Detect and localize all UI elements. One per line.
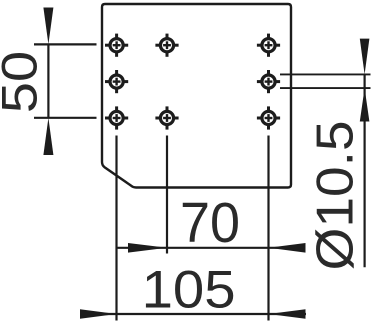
hole B3 (row2 col3): [257, 70, 280, 93]
svg-text:50: 50: [0, 51, 48, 113]
dia 10.5: tangent line upper: [280, 73, 371, 75]
hole A1 (row1 col1): [105, 34, 128, 57]
dia 10.5: tangent line lower: [280, 87, 371, 89]
plate outline: [102, 4, 291, 188]
dim 105: arrow right: [269, 309, 306, 319]
dim 50: arrow top: [43, 8, 53, 45]
hole C2 (row3 col2): [155, 106, 178, 129]
dia 10.5: dimension line: [364, 74, 366, 267]
dim 70: arrow left: [128, 243, 167, 253]
hole C1 (row3 col1): [105, 106, 128, 129]
svg-text:Ø10.5: Ø10.5: [307, 121, 365, 271]
extension line col3: [267, 136, 269, 321]
hole B1 (row2 col1): [105, 70, 128, 93]
hole C3 (row3 col3): [257, 106, 280, 129]
dia 10.5: arrow top: [360, 39, 370, 75]
dim 50: dimension line: [47, 44, 49, 117]
dim 50: arrow bottom: [43, 118, 53, 155]
dim 105: arrow left: [80, 309, 117, 319]
dim 70: dimension line: [117, 247, 305, 249]
dim 105: dimension line: [80, 313, 306, 315]
dia 10.5: arrow bottom: [360, 88, 370, 121]
dim 50: extension line top: [34, 43, 97, 45]
extension line col2: [166, 136, 168, 254]
hole A2 (row1 col2): [155, 34, 178, 57]
dim 50: extension line bottom: [34, 117, 97, 119]
dim 70: arrow right: [269, 243, 306, 253]
extension line col1: [115, 136, 117, 321]
hole A3 (row1 col3): [257, 34, 280, 57]
svg-text:70: 70: [180, 191, 240, 255]
svg-text:105: 105: [142, 261, 236, 320]
